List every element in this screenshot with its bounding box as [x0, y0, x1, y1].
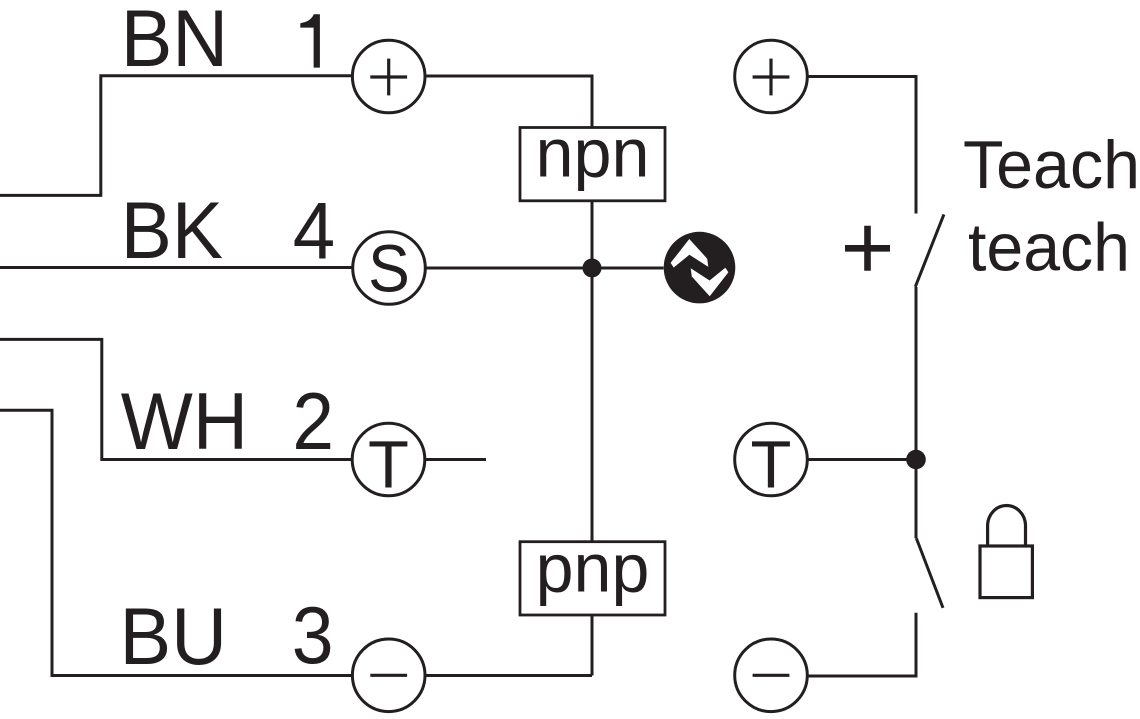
svg-text:pnp: pnp	[536, 530, 650, 607]
pnp box	[520, 530, 665, 615]
wire upper switch to lower switch	[915, 287, 918, 538]
wire BN left lead	[0, 76, 352, 196]
svg-text:2: 2	[292, 377, 334, 467]
wire T to junction	[807, 458, 916, 461]
wire teach + to upper switch	[807, 77, 916, 214]
terminal circle - pin 3	[352, 639, 425, 712]
wire T stub	[425, 458, 486, 461]
plus sign teach polarity	[845, 226, 890, 271]
svg-text:BN: BN	[121, 0, 229, 84]
wire npn to pnp trunk	[591, 201, 594, 542]
light-dark switching icon	[664, 232, 736, 304]
svg-text:S: S	[368, 231, 410, 306]
terminal circle + pin 1	[352, 40, 425, 113]
lock switch blade lower	[916, 538, 943, 608]
svg-text:BK: BK	[121, 186, 223, 276]
teach switch blade upper	[915, 214, 944, 286]
wire WH left lead	[0, 339, 352, 459]
junction node teach	[906, 450, 926, 470]
svg-text:T: T	[368, 427, 409, 502]
padlock icon	[980, 505, 1032, 597]
svg-text:BU: BU	[120, 592, 228, 682]
svg-text:Teach: Teach	[963, 128, 1140, 203]
wire S to switching icon	[426, 267, 664, 270]
label pin number 1	[300, 14, 320, 67]
svg-text:T: T	[751, 427, 792, 502]
junction node on trunk	[583, 259, 602, 278]
svg-text:3: 3	[292, 591, 334, 681]
svg-text:WH: WH	[121, 377, 248, 467]
wire pnp to BU	[591, 615, 594, 676]
wire BU left lead	[0, 410, 352, 675]
terminal circle S pin 4	[353, 231, 426, 306]
terminal circle + teach supply	[735, 40, 808, 113]
wire - to pnp trunk	[425, 674, 592, 677]
svg-text:teach: teach	[968, 211, 1130, 286]
terminal circle T teach input	[735, 423, 808, 502]
wire + to npn trunk	[425, 76, 592, 128]
svg-text:4: 4	[293, 187, 335, 277]
svg-text:npn: npn	[536, 115, 650, 192]
terminal circle T pin 2	[352, 423, 425, 502]
wire BK	[0, 266, 352, 269]
wire lower switch to teach -	[807, 613, 916, 676]
npn box	[520, 115, 665, 201]
terminal circle - teach return	[735, 639, 808, 712]
